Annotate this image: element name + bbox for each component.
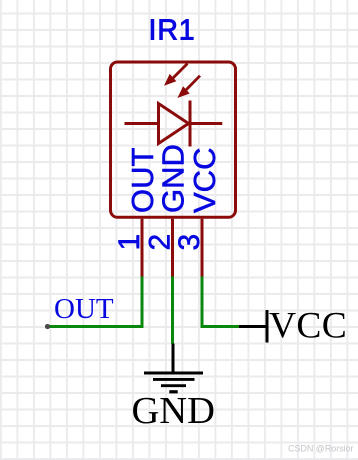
component IR1 body [111, 62, 236, 217]
svg-text:VCC: VCC [269, 306, 347, 347]
svg-text:OUT: OUT [54, 293, 114, 325]
IR light arrow 1 [164, 64, 188, 86]
svg-text:VCC: VCC [187, 148, 222, 213]
net label OUT [54, 293, 114, 325]
svg-text:3: 3 [173, 234, 206, 251]
pin 2 lead [171, 219, 174, 278]
pin name VCC [187, 148, 222, 213]
photodiode D (cathode lead) [190, 122, 222, 125]
svg-text:IR1: IR1 [149, 15, 196, 47]
svg-text:2: 2 [144, 234, 177, 251]
wire net VCC [202, 277, 239, 327]
pin number 3 [173, 234, 206, 251]
svg-text:CSDN @Rorsior: CSDN @Rorsior [288, 444, 354, 454]
power port VCC (lead) [239, 325, 267, 328]
pin name GND [156, 144, 191, 213]
wire endpoint dot [45, 324, 50, 329]
power port label VCC [269, 306, 347, 347]
pin 3 lead [201, 219, 204, 278]
wire net GND [171, 277, 174, 344]
photodiode D (cathode bar) [189, 101, 192, 147]
svg-text:GND: GND [156, 144, 191, 213]
pin name OUT [125, 148, 160, 214]
watermark [288, 444, 354, 454]
designator IR1 [149, 15, 196, 47]
pin number 1 [113, 234, 146, 251]
svg-text:GND: GND [132, 390, 215, 432]
pin number 2 [144, 234, 177, 251]
svg-text:1: 1 [113, 234, 146, 251]
pin 1 lead [141, 219, 144, 278]
photodiode D (triangle) [159, 104, 189, 144]
wire net OUT [48, 277, 143, 327]
ground symbol [144, 344, 203, 392]
power port label GND [132, 390, 215, 432]
power port VCC (bar) [266, 310, 269, 343]
photodiode D (anode lead) [125, 122, 159, 125]
IR light arrow 2 [177, 76, 200, 98]
